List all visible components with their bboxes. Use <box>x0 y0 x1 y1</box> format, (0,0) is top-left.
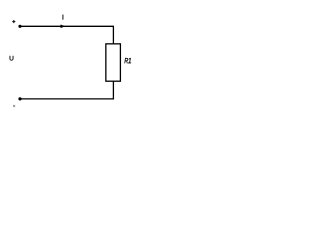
background <box>0 0 146 120</box>
resistor R1 body <box>106 44 121 81</box>
label U <box>10 56 14 61</box>
node B (bottom-left terminal dot) <box>18 97 21 100</box>
node A (top-left terminal dot) <box>18 25 21 28</box>
wire bottom horizontal <box>20 98 114 100</box>
plus terminal label <box>12 20 15 23</box>
wire right vertical top segment <box>112 26 114 44</box>
label R1 <box>124 58 131 64</box>
current arrow <box>61 24 66 28</box>
label I <box>61 15 64 20</box>
wire right vertical bottom segment <box>112 81 114 99</box>
minus terminal label <box>13 105 15 107</box>
wire top horizontal <box>20 25 113 27</box>
